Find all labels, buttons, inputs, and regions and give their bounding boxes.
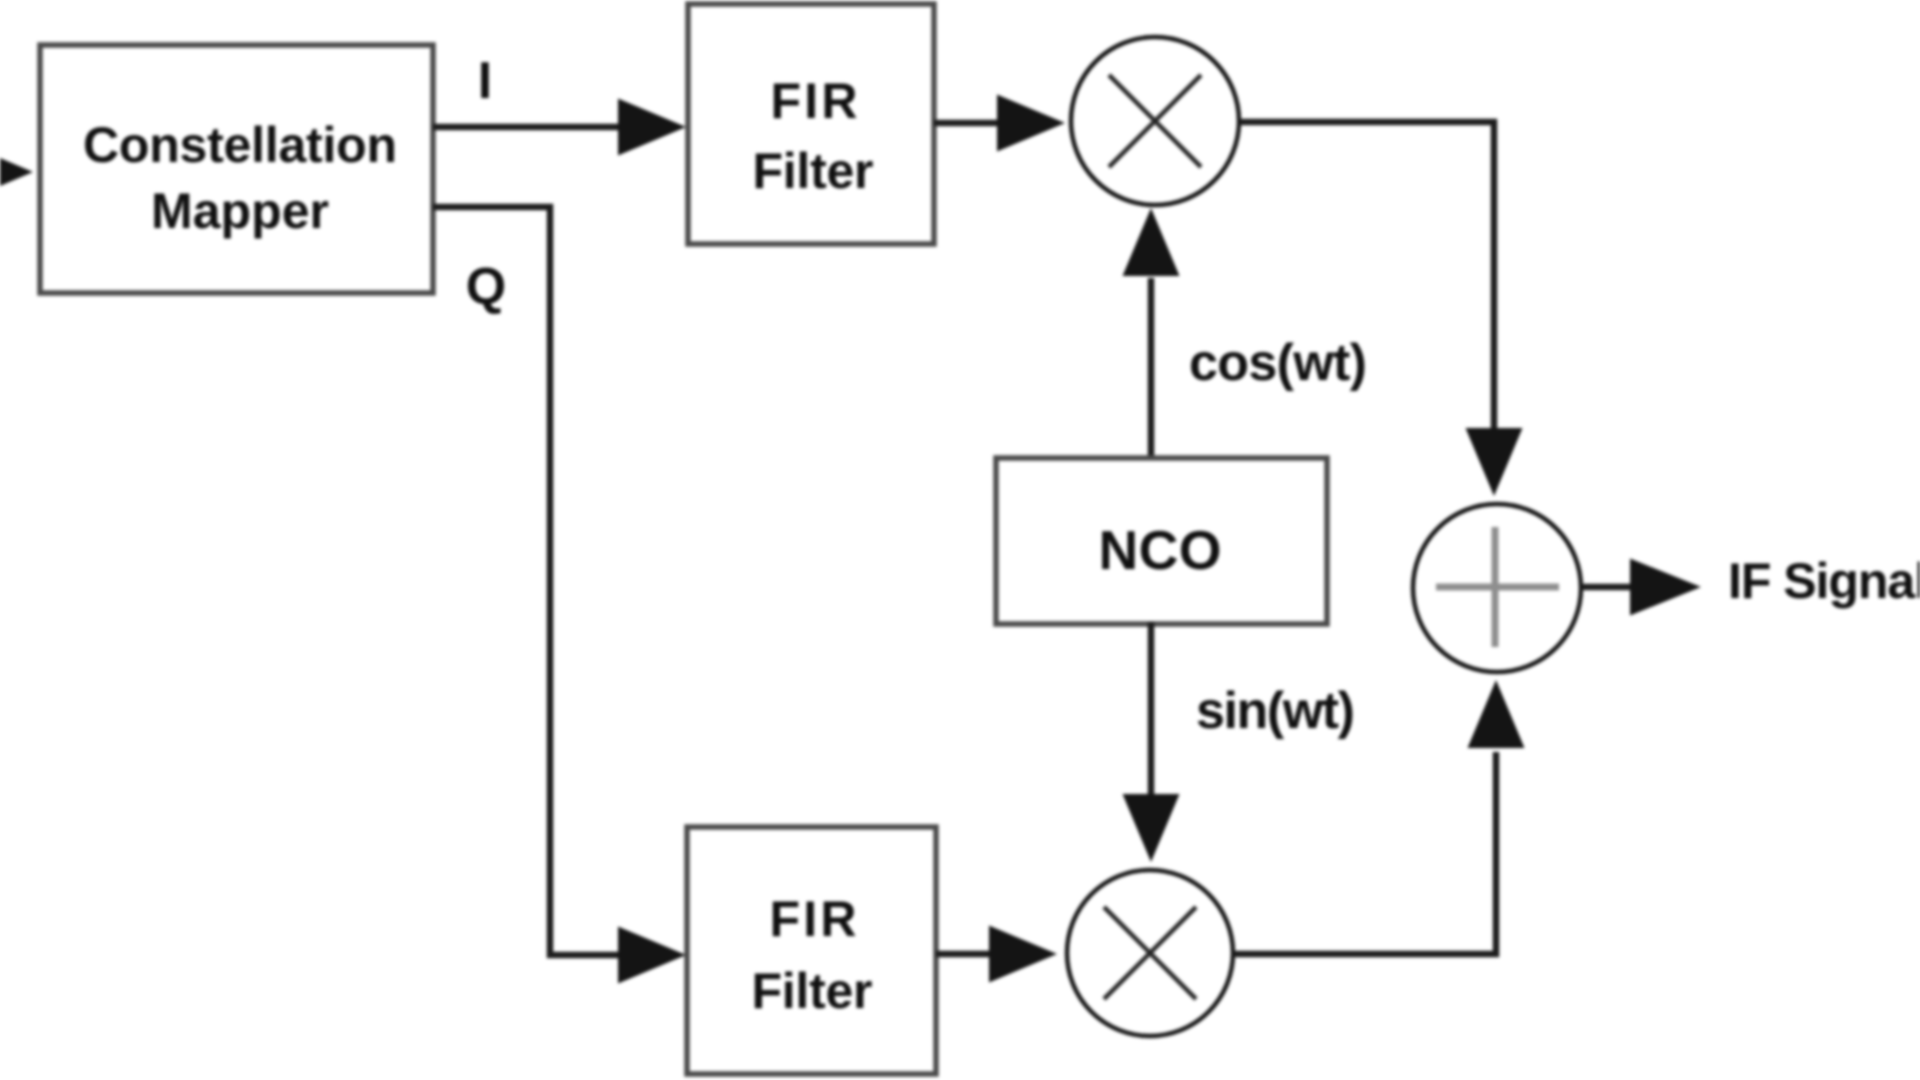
wire FIR Filter 2 output: [936, 951, 990, 958]
wire NCO cos output up to M1: [1148, 278, 1155, 460]
arrowhead up into adder bottom: [1468, 680, 1525, 748]
node Q label: [466, 258, 506, 316]
arrowhead into multiplier M2: [989, 926, 1057, 983]
svg-text:Filter: Filter: [752, 963, 873, 1019]
wire adder output: [1581, 584, 1632, 591]
arrowhead into FIR Filter 2: [618, 927, 686, 984]
svg-text:IF Signal: IF Signal: [1728, 553, 1920, 609]
wire FIR Filter 1 output: [934, 120, 998, 127]
svg-text:FIR: FIR: [770, 891, 857, 947]
wire Q from Constellation Mapper down and right to FIR Filter 2: [433, 207, 620, 955]
arrowhead down into multiplier M2: [1123, 794, 1180, 862]
multiplier M1 (top mixer): [1071, 37, 1239, 205]
svg-text:Filter: Filter: [753, 143, 874, 199]
arrowhead up into multiplier M1: [1123, 208, 1180, 276]
arrowhead into multiplier M1: [997, 95, 1065, 152]
wire multiplier M1 output to adder: [1239, 122, 1494, 430]
svg-text:Q: Q: [466, 258, 506, 316]
block Constellation Mapper: [40, 45, 433, 293]
svg-text:Mapper: Mapper: [151, 183, 329, 239]
svg-text:FIR: FIR: [771, 73, 858, 129]
block FIR Filter 2 (bottom): [687, 827, 936, 1074]
multiplier M2 (bottom mixer): [1067, 870, 1233, 1036]
label sin(wt): [1196, 682, 1355, 740]
arrowhead IF Signal output: [1630, 559, 1701, 616]
arrowhead into FIR Filter 1: [618, 99, 686, 156]
input arrow into Constellation Mapper: [0, 144, 33, 201]
wire NCO sin output down to M2: [1148, 622, 1155, 796]
wire multiplier M2 output to adder: [1233, 752, 1496, 954]
adder (summing junction): [1413, 504, 1581, 672]
label IF Signal: [1728, 553, 1920, 609]
svg-text:I: I: [478, 52, 492, 110]
svg-text:sin(wt): sin(wt): [1196, 682, 1355, 740]
node I label: [478, 52, 492, 110]
svg-text:cos(wt): cos(wt): [1189, 334, 1367, 392]
arrowhead down into adder top: [1466, 428, 1523, 496]
svg-text:NCO: NCO: [1099, 519, 1222, 581]
label cos(wt): [1189, 334, 1367, 392]
wire I from Constellation Mapper to FIR Filter 1: [433, 124, 620, 131]
block FIR Filter 1 (top): [688, 4, 934, 244]
svg-text:Constellation: Constellation: [83, 117, 397, 173]
block NCO: [996, 458, 1327, 624]
